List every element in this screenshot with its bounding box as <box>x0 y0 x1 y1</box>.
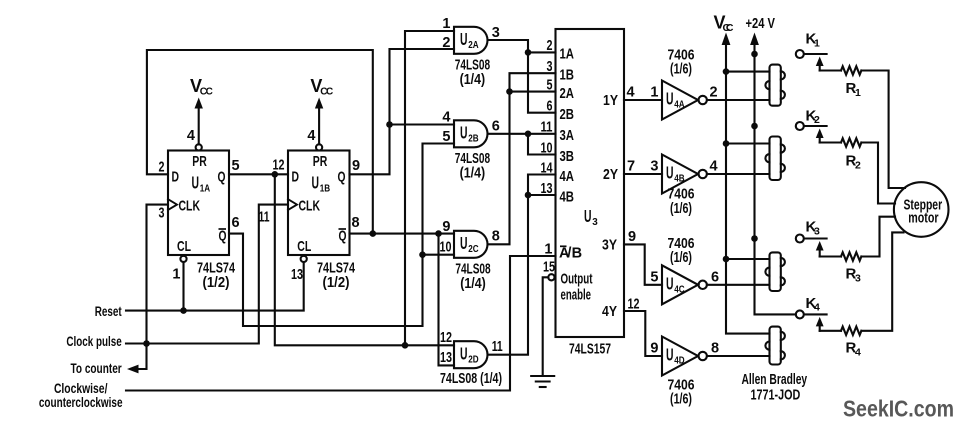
svg-text:Clockwise/: Clockwise/ <box>54 381 108 396</box>
junction reset node <box>180 307 187 314</box>
svg-text:2A: 2A <box>468 39 479 51</box>
contact K1 moving arm arrowhead <box>816 57 824 71</box>
svg-text:3: 3 <box>814 225 820 237</box>
wire U2D output pin11 up to U3 pins 4B and 4A <box>489 175 556 355</box>
wire net QA branch down to U2D pin 12 <box>275 174 454 345</box>
svg-text:12: 12 <box>628 297 640 313</box>
resistor R3 <box>820 217 895 261</box>
svg-text:(1/4): (1/4) <box>460 165 486 182</box>
wire net QB: U1B.Q pin9 up to U2A pin 2 <box>350 49 455 174</box>
svg-text:8: 8 <box>352 215 360 231</box>
svg-text:3: 3 <box>650 159 658 175</box>
contact K4 terminal circle <box>796 310 804 318</box>
svg-text:U: U <box>460 29 468 49</box>
overline over A of A/B <box>560 245 567 247</box>
svg-text:motor: motor <box>908 209 938 226</box>
U1B preset Vcc arrow shaft pin 4 <box>318 106 320 144</box>
wire net Qbar-A branch to U2C pin 10 <box>423 254 455 256</box>
junction U3 4B <box>525 192 532 199</box>
svg-text:Q: Q <box>219 228 227 245</box>
label U3 designator <box>584 206 598 228</box>
svg-text:4: 4 <box>187 128 195 144</box>
svg-text:(1/6): (1/6) <box>670 200 692 217</box>
contact K4 moving arm arrowhead <box>816 317 824 331</box>
svg-text:9: 9 <box>352 158 360 174</box>
junction +24V K1 <box>751 51 758 58</box>
svg-text:U: U <box>460 233 468 253</box>
wire U3 pin15 output enable to ground <box>543 277 549 375</box>
AND gate U2B body <box>454 120 488 147</box>
U1A CL bubble <box>180 256 186 262</box>
svg-text:U: U <box>666 345 674 365</box>
svg-text:(1/2): (1/2) <box>203 274 230 291</box>
svg-text:U: U <box>666 163 674 183</box>
svg-text:+24 V: +24 V <box>746 16 776 32</box>
svg-text:2D: 2D <box>468 354 479 366</box>
label R4 <box>846 340 862 359</box>
svg-text:9: 9 <box>650 341 658 357</box>
wire To counter branch <box>134 344 147 370</box>
svg-text:Q: Q <box>338 169 346 186</box>
svg-text:74LS157: 74LS157 <box>569 341 611 358</box>
junction Qbar-A at U2C pin10 <box>419 251 426 258</box>
junction U3 1A <box>525 49 532 56</box>
svg-text:3Y: 3Y <box>602 237 617 254</box>
label A/B select <box>559 246 582 262</box>
label K3 <box>806 219 821 238</box>
stepper motor body <box>894 182 949 237</box>
junction Vcc coil K2 <box>723 140 730 147</box>
arrowhead +24V rail <box>750 33 759 46</box>
svg-text:6: 6 <box>547 99 553 115</box>
svg-text:2: 2 <box>710 85 718 101</box>
svg-text:3: 3 <box>592 216 598 228</box>
U3 pin15 output-enable bubble <box>548 274 554 280</box>
svg-text:1771-JOD: 1771-JOD <box>751 386 801 403</box>
svg-text:4C: 4C <box>674 284 685 296</box>
resistor R2 <box>820 138 895 203</box>
svg-text:U: U <box>584 206 592 226</box>
contact K2 fixed bar <box>804 125 826 127</box>
contact K4 fixed bar <box>804 313 826 315</box>
wire U2C output pin8 up to U3 pins 1B and 2A <box>489 73 556 244</box>
svg-text:3: 3 <box>492 25 500 41</box>
svg-text:1Y: 1Y <box>603 92 618 109</box>
arrowhead Vcc rail <box>722 33 731 46</box>
inverter U4A body <box>662 81 707 120</box>
svg-text:4: 4 <box>307 128 315 144</box>
svg-text:74LS08 (1/4): 74LS08 (1/4) <box>440 370 502 387</box>
wire Reset line to U1B.CL pin13 <box>126 262 304 311</box>
svg-text:enable: enable <box>561 287 592 304</box>
resistor R4 <box>820 232 904 335</box>
contact K2 terminal circle <box>796 122 804 130</box>
overline Qbar U1B <box>339 228 347 230</box>
svg-text:(1/6): (1/6) <box>670 249 692 266</box>
svg-text:8: 8 <box>711 341 719 357</box>
wire U3 2Y pin7 to U4B input pin3 <box>624 173 662 175</box>
relay coil K3 <box>765 252 784 291</box>
wire U3 4B stub <box>528 194 556 196</box>
arrowhead Vcc U1B preset <box>315 98 323 109</box>
contact K3 moving arm arrowhead <box>816 241 824 257</box>
label R1 <box>846 80 862 99</box>
svg-text:1: 1 <box>650 85 658 101</box>
svg-text:1: 1 <box>172 267 180 283</box>
svg-text:4: 4 <box>442 110 450 126</box>
svg-text:1: 1 <box>855 87 861 99</box>
U1B CLK edge triangle <box>288 199 297 210</box>
label R2 <box>846 153 862 172</box>
svg-text:U: U <box>460 123 468 143</box>
ground symbol <box>531 376 554 387</box>
flip-flop U1A body <box>168 151 229 256</box>
svg-text:1B: 1B <box>320 183 331 195</box>
wire Vcc to coil K2 top <box>726 142 770 144</box>
svg-text:4D: 4D <box>674 355 685 367</box>
svg-text:4B: 4B <box>560 189 575 205</box>
svg-text:5: 5 <box>650 270 658 286</box>
svg-text:11: 11 <box>541 120 553 136</box>
wire U4D output pin8 to relay coil K4 <box>707 355 770 357</box>
label U2D designator <box>460 344 479 366</box>
svg-text:5: 5 <box>547 77 553 93</box>
label Vcc rail <box>714 13 734 35</box>
svg-text:PR: PR <box>192 153 207 170</box>
svg-text:6: 6 <box>492 119 500 135</box>
svg-text:CC: CC <box>320 87 333 98</box>
AND gate U2A body <box>454 27 488 54</box>
contact K3 fixed bar <box>804 237 826 239</box>
svg-text:13: 13 <box>440 350 452 366</box>
U1A CLK edge triangle <box>168 199 177 210</box>
svg-text:7: 7 <box>627 159 635 175</box>
svg-text:3: 3 <box>159 206 165 222</box>
svg-text:4: 4 <box>814 302 820 314</box>
svg-text:3B: 3B <box>560 149 575 165</box>
wire net Qbar-B feedback to U1A.D pin2 <box>147 50 373 234</box>
svg-text:U: U <box>312 173 320 193</box>
wire net Qbar-B: U1B.Qbar pin8 to U2C pin 9 <box>350 233 455 235</box>
svg-text:1A: 1A <box>560 47 575 63</box>
svg-text:(1/6): (1/6) <box>670 61 692 78</box>
svg-text:U: U <box>460 344 468 364</box>
junction Vcc coil K1 <box>723 68 730 75</box>
wire U2A output pin3 to U3 pins 1A and 2B <box>489 40 556 113</box>
svg-text:Q: Q <box>339 228 347 245</box>
contact K2 moving arm arrowhead <box>816 129 824 143</box>
svg-text:2: 2 <box>442 35 450 51</box>
svg-text:4Y: 4Y <box>602 303 617 320</box>
wire net QA branch up to U2A pin 1 <box>405 31 454 345</box>
flip-flop U1B body <box>288 151 350 256</box>
svg-text:3A: 3A <box>560 128 575 144</box>
svg-text:4: 4 <box>627 85 635 101</box>
U1B PR bubble <box>316 144 322 150</box>
svg-text:B: B <box>572 246 582 262</box>
arrowhead Vcc U1A preset <box>195 98 203 109</box>
svg-text:5: 5 <box>442 129 450 145</box>
svg-text:9: 9 <box>442 219 450 235</box>
junction U3 3A <box>525 131 532 138</box>
svg-text:13: 13 <box>291 267 303 283</box>
wire U2B output pin6 to U3 pin 3A <box>489 133 556 135</box>
svg-text:3: 3 <box>547 59 553 75</box>
label Vcc at U1A <box>190 76 213 98</box>
junction QA at U2A pin1 leg <box>402 342 409 349</box>
label R3 <box>846 266 862 285</box>
label U4C designator <box>666 274 685 296</box>
svg-text:2Y: 2Y <box>603 166 618 183</box>
label U4D designator <box>666 345 685 367</box>
svg-text:CC: CC <box>200 87 213 98</box>
svg-text:(1/4): (1/4) <box>460 71 486 88</box>
svg-text:SeekIC.com: SeekIC.com <box>843 396 954 422</box>
svg-text:Reset: Reset <box>95 304 122 319</box>
wire Clockwise/counterclockwise line to U3 pin 1 A/B <box>126 256 556 391</box>
svg-text:2: 2 <box>855 160 861 172</box>
svg-text:6: 6 <box>711 269 719 285</box>
svg-text:9: 9 <box>628 229 636 245</box>
label U4A designator <box>666 89 685 111</box>
svg-text:1: 1 <box>442 16 450 32</box>
AND gate U2D body <box>454 341 488 368</box>
svg-text:2: 2 <box>547 38 553 54</box>
label U2A designator <box>460 29 479 51</box>
power rail Vcc vertical <box>726 44 770 334</box>
wire net QA: U1A.Q pin5 to U1B.D pin12 <box>229 173 288 175</box>
wire U4B output pin4 to relay coil K2 <box>707 173 770 175</box>
svg-text:Clock pulse: Clock pulse <box>66 334 122 349</box>
svg-text:5: 5 <box>232 158 240 174</box>
svg-text:4B: 4B <box>674 173 685 185</box>
arrowhead To counter <box>127 365 139 374</box>
wire U3 1Y pin4 to U4A input pin1 <box>624 99 662 101</box>
junction +24V K2 <box>751 123 758 130</box>
relay coil K1 <box>765 65 784 106</box>
svg-text:(1/2): (1/2) <box>323 274 350 291</box>
contact K1 terminal circle <box>796 50 804 58</box>
svg-text:6: 6 <box>232 215 240 231</box>
label U1B designator <box>312 173 331 195</box>
inverter U4D body <box>662 337 707 376</box>
power rail +24V vertical <box>755 44 796 314</box>
svg-text:U: U <box>666 274 674 294</box>
svg-text:U: U <box>192 173 200 193</box>
wire U3 2A stub <box>510 91 556 93</box>
svg-text:11: 11 <box>259 210 270 226</box>
svg-text:15: 15 <box>543 260 555 276</box>
svg-text:2C: 2C <box>468 243 479 255</box>
svg-text:4: 4 <box>855 347 861 359</box>
junction QA at U1B.D <box>272 171 279 178</box>
inverter U4C body <box>662 265 707 304</box>
label K2 <box>806 107 821 126</box>
wire Vcc to coil K1 top <box>726 71 770 73</box>
multiplexer U3 body <box>556 29 625 337</box>
svg-text:To counter: To counter <box>71 361 123 376</box>
U1B CL bubble <box>301 256 307 262</box>
label K1 <box>806 31 821 50</box>
svg-text:10: 10 <box>541 140 553 156</box>
wire Clock pulse line to U1B CLK pin 11 <box>126 205 288 344</box>
U1A PR bubble <box>196 144 202 150</box>
svg-text:4A: 4A <box>674 99 685 111</box>
svg-text:1: 1 <box>544 241 552 257</box>
svg-text:2B: 2B <box>468 133 479 145</box>
relay coil K4 <box>765 327 784 365</box>
svg-text:CL: CL <box>297 238 311 255</box>
svg-text:counterclockwise: counterclockwise <box>39 395 123 410</box>
svg-text:CL: CL <box>177 238 191 255</box>
junction QB at U2B pin4 <box>386 121 393 128</box>
wire U4C output pin6 to relay coil K3 <box>707 284 770 286</box>
relay coil K2 <box>765 137 784 181</box>
svg-text:12: 12 <box>273 158 285 174</box>
svg-text:1: 1 <box>814 37 820 49</box>
junction Qbar-B feedback <box>370 230 377 237</box>
wire net Qbar-B branch to U2D pin 13 <box>439 234 455 366</box>
svg-text:D: D <box>292 169 300 186</box>
label U2C designator <box>460 233 479 255</box>
label U1A designator <box>192 173 211 195</box>
svg-text:10: 10 <box>440 239 452 255</box>
wire Reset leg to U1A.CL pin1 <box>182 262 184 311</box>
svg-text:2: 2 <box>159 160 165 176</box>
overline Qbar U1A <box>219 228 227 230</box>
wire Vcc to coil K3 top <box>726 258 770 260</box>
svg-text:13: 13 <box>541 181 553 197</box>
svg-text:4: 4 <box>710 159 718 175</box>
svg-text:D: D <box>172 169 180 186</box>
wire net Qbar-A: U1A.Qbar pin6 over to U2B pin 5 <box>229 144 454 327</box>
svg-text:CLK: CLK <box>179 198 201 215</box>
junction +24V K3 <box>751 235 758 242</box>
svg-text:Output: Output <box>561 271 593 288</box>
label U2B designator <box>460 123 479 145</box>
svg-text:CC: CC <box>723 22 734 34</box>
svg-text:2A: 2A <box>560 86 575 102</box>
wire U3 1A stub <box>528 51 556 53</box>
wire U4A output pin2 to relay coil K1 <box>707 99 770 101</box>
svg-text:3: 3 <box>855 273 861 285</box>
wire Clock branch to U1A CLK pin 3 <box>147 205 169 344</box>
junction U3 2A <box>506 88 513 95</box>
wire U3 3B stub <box>528 134 556 155</box>
junction Vcc coil K3 <box>723 256 730 263</box>
wire U3 3Y pin9 to U4C input pin5 <box>624 244 662 284</box>
svg-text:CLK: CLK <box>299 198 321 215</box>
svg-text:11: 11 <box>492 339 503 355</box>
label Vcc at U1B <box>310 76 333 98</box>
svg-text:(1/4): (1/4) <box>460 275 486 292</box>
svg-text:12: 12 <box>440 330 452 346</box>
svg-text:PR: PR <box>313 153 328 170</box>
svg-text:2: 2 <box>814 114 820 126</box>
AND gate U2C body <box>454 231 488 258</box>
inverter U4B body <box>662 155 707 194</box>
label U4B designator <box>666 163 685 185</box>
svg-text:Q: Q <box>218 169 226 186</box>
svg-text:1A: 1A <box>200 183 211 195</box>
wire U3 4Y pin12 to U4D input pin9 <box>624 311 662 356</box>
U1A preset Vcc arrow shaft pin 4 <box>198 106 200 144</box>
svg-text:4A: 4A <box>560 169 575 185</box>
svg-text:1B: 1B <box>560 68 575 84</box>
contact K3 terminal circle <box>796 235 804 243</box>
resistor R1 <box>820 66 905 188</box>
svg-text:U: U <box>666 89 674 109</box>
svg-text:(1/6): (1/6) <box>670 390 692 407</box>
wire net QB branch to U2B pin 4 <box>390 123 455 125</box>
label K4 <box>806 295 821 314</box>
svg-text:8: 8 <box>492 229 500 245</box>
svg-text:14: 14 <box>541 160 553 176</box>
contact K1 fixed bar <box>804 53 826 55</box>
junction Qbar-B to U2D leg <box>435 230 442 237</box>
junction clock node <box>143 340 150 347</box>
svg-text:2B: 2B <box>560 107 575 123</box>
